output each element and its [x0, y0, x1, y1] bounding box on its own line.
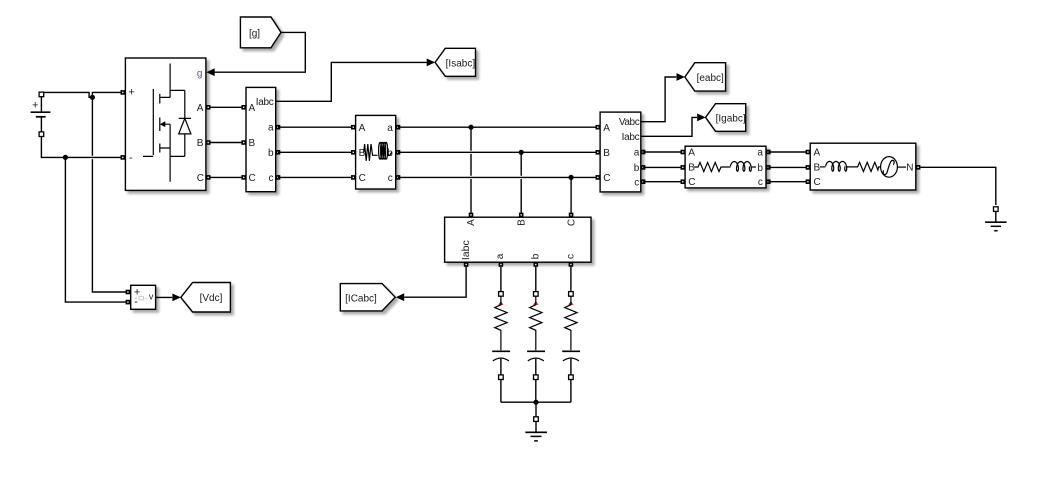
svg-text:C: C — [566, 219, 577, 226]
svg-text:B: B — [516, 219, 527, 226]
svg-text:A: A — [688, 148, 695, 159]
node J2 — [63, 155, 68, 160]
svg-text:C: C — [603, 173, 610, 184]
wire row b long — [398, 151, 598, 153]
icon coils — [364, 142, 392, 160]
voltage measurement v block — [126, 285, 156, 309]
arrow into eabc — [677, 73, 685, 81]
wire row b — [278, 151, 353, 153]
battery DC source — [31, 92, 51, 136]
svg-text:A: A — [603, 123, 610, 134]
svg-text:A: A — [466, 219, 477, 226]
svg-text:Iabc: Iabc — [622, 132, 640, 143]
svg-text:B: B — [688, 162, 695, 173]
svg-text:+: + — [128, 87, 134, 99]
series RL block B1 — [351, 115, 400, 189]
wires RL1 to source rows — [768, 152, 808, 182]
wire to v plus — [92, 97, 128, 292]
svg-text:b: b — [268, 148, 274, 159]
svg-text:A: A — [814, 148, 821, 159]
wire c meas2 to RL C — [643, 181, 683, 183]
goto tag [eabc] — [685, 63, 726, 91]
wire dc plus rail — [41, 92, 122, 132]
svg-text:g: g — [197, 68, 203, 79]
svg-text:[g]: [g] — [249, 29, 260, 40]
svg-text:[Isabc]: [Isabc] — [446, 59, 476, 70]
wire row B — [211, 142, 244, 144]
svg-text:c: c — [758, 177, 763, 188]
svg-text:-: - — [129, 152, 133, 164]
arrow into ICabc — [396, 293, 404, 301]
wire Iabc out to Igabc tag — [641, 117, 697, 136]
measurement M2 Vabc Iabc block — [596, 112, 646, 192]
wire dc minus rail — [41, 136, 122, 157]
ground G2 middle — [525, 417, 547, 441]
node J1 — [90, 95, 95, 100]
svg-text:v: v — [149, 292, 154, 302]
svg-text:C: C — [249, 173, 256, 184]
wire row a — [278, 126, 353, 128]
svg-text:c: c — [388, 173, 393, 184]
svg-text:Iabc: Iabc — [460, 240, 472, 260]
svg-text:N: N — [906, 162, 913, 173]
svg-text:a: a — [757, 148, 763, 159]
goto tag [Igabc] — [706, 104, 746, 132]
svg-text:C: C — [814, 177, 821, 188]
node bus — [533, 400, 538, 405]
svg-text:[ICabc]: [ICabc] — [345, 293, 377, 304]
svg-text:b: b — [530, 253, 541, 259]
svg-text:C: C — [197, 173, 204, 184]
wire tap B down — [520, 152, 522, 212]
svg-text:[eabc]: [eabc] — [697, 73, 724, 84]
wire N to ground — [920, 167, 995, 222]
svg-text:Iabc: Iabc — [256, 97, 274, 108]
RC branch 3 — [562, 267, 580, 402]
wire b RL to source B — [768, 166, 808, 168]
arrow into converter g — [206, 68, 214, 76]
wire Iabc out to Isabc tag — [276, 62, 427, 101]
arrow into Isabc — [427, 59, 435, 67]
goto tag [Isabc] — [435, 48, 475, 76]
svg-text:c: c — [269, 173, 274, 184]
goto tag [Vdc] — [181, 283, 231, 313]
wire row a long — [398, 126, 598, 128]
arrow into Vdc — [172, 294, 180, 302]
arrow into Igabc — [697, 114, 705, 122]
RC branch 1 — [492, 267, 510, 402]
svg-text:[Igabc]: [Igabc] — [716, 114, 746, 125]
svg-text:c: c — [565, 254, 576, 259]
svg-text:a: a — [495, 253, 506, 259]
svg-text:+: + — [32, 99, 38, 111]
measurement M1 Iabc block — [241, 87, 280, 191]
svg-text:C: C — [359, 173, 366, 184]
ground G1 right — [985, 207, 1007, 231]
wire row c long — [398, 176, 598, 178]
svg-text:C: C — [688, 177, 695, 188]
svg-text:b: b — [634, 163, 640, 174]
node A tap — [468, 125, 473, 130]
WIRES-LEFT — [41, 92, 128, 302]
wire v to Vdc — [156, 296, 173, 298]
svg-text:c: c — [634, 177, 639, 188]
converter U1 universal bridge — [121, 58, 211, 190]
svg-text:[Vdc]: [Vdc] — [200, 293, 223, 304]
wires converter to Iabc measure — [211, 107, 244, 177]
svg-text:B: B — [249, 138, 256, 149]
bottom measurement M3 block — [445, 213, 591, 267]
wires Vabc to RL1 rows — [643, 152, 683, 182]
wires Iabc to series block rows — [278, 127, 353, 177]
wire row C — [211, 176, 244, 178]
svg-text:A: A — [249, 103, 256, 114]
goto tag [ICabc] mirrored — [340, 284, 395, 311]
svg-text:Vabc: Vabc — [619, 117, 640, 128]
wire g to converter — [215, 32, 306, 72]
svg-text:a: a — [387, 123, 393, 134]
svg-text:A: A — [359, 123, 366, 134]
svg-text:A: A — [197, 103, 204, 114]
node B tap — [519, 150, 524, 155]
icon L R sine — [820, 157, 906, 178]
svg-text:B: B — [603, 148, 610, 159]
wire tap C down — [570, 177, 572, 212]
wire Iabc3 out to ICabc tag — [404, 267, 466, 297]
from tag [g] — [240, 17, 281, 48]
node C tap — [569, 175, 574, 180]
RC branch 2 — [527, 267, 545, 402]
svg-text:B: B — [197, 138, 204, 149]
bus to ground middle — [501, 402, 571, 432]
wire a RL to source A — [768, 151, 808, 153]
wire row A — [211, 106, 244, 108]
wire tap A down — [470, 127, 472, 212]
icon R L — [694, 162, 756, 172]
converter ports — [121, 90, 126, 95]
wires series block to Vabc measure rows — [398, 125, 598, 213]
wire c RL to source C — [768, 181, 808, 183]
three-phase source block — [806, 143, 921, 190]
igbt icon — [143, 64, 191, 182]
wire Vabc out to eabc tag — [641, 77, 676, 122]
wire a meas2 to RL A — [643, 151, 683, 153]
igbt arrow — [160, 121, 166, 127]
svg-text:b: b — [757, 163, 763, 174]
svg-text:a: a — [634, 148, 640, 159]
wire b meas2 to RL B — [643, 166, 683, 168]
svg-text:a: a — [268, 123, 274, 134]
wire to v minus — [65, 157, 128, 302]
wire row c — [278, 176, 353, 178]
RL branch block RL1 — [681, 146, 771, 188]
svg-text:B: B — [814, 162, 821, 173]
